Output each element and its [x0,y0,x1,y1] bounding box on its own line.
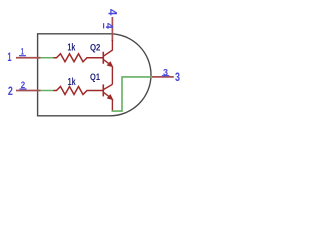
wire pin2 to R2 [41,90,54,92]
transistor Q2 base bar [102,52,104,64]
pin number 1 underline [19,55,26,57]
svg-text:4: 4 [103,23,114,29]
output wire (emitter to pin 3) [112,77,152,111]
pin 3 line [152,76,174,78]
wire pin1 to R1 [41,57,54,59]
svg-text:1k: 1k [68,77,76,88]
svg-text:3: 3 [175,70,180,84]
transistor Q1 base bar [102,84,104,96]
transistor Q2 emitter [104,60,111,65]
svg-text:1: 1 [21,46,24,57]
resistor R2 [53,87,102,95]
Q1 emitter drop wire [111,99,113,111]
resistor R1 [53,54,102,62]
pin 2 line [16,90,41,92]
svg-text:4: 4 [106,9,118,16]
svg-text:1: 1 [7,50,11,64]
pin number 2 underline [20,88,27,90]
transistor Q1 collector [104,84,113,89]
transistor Q2 collector [104,40,113,56]
pin 1 line [16,57,41,59]
svg-text:2: 2 [8,84,13,98]
svg-text:Q1: Q1 [90,72,100,82]
pin 4 line [111,17,113,41]
transistor Q1 emitter [104,93,111,98]
pin number 3 underline [162,75,170,77]
svg-text:2: 2 [21,79,25,90]
svg-text:Q2: Q2 [90,42,101,52]
pin number 4 underline [103,23,105,28]
Q2 emitter arrow [107,62,112,67]
Q1 emitter arrow [107,95,112,100]
svg-text:1k: 1k [67,42,75,53]
component body outline (rect + semicircle D-shape) [38,34,151,116]
Q2 emitter to Q1 collector link [111,67,113,85]
